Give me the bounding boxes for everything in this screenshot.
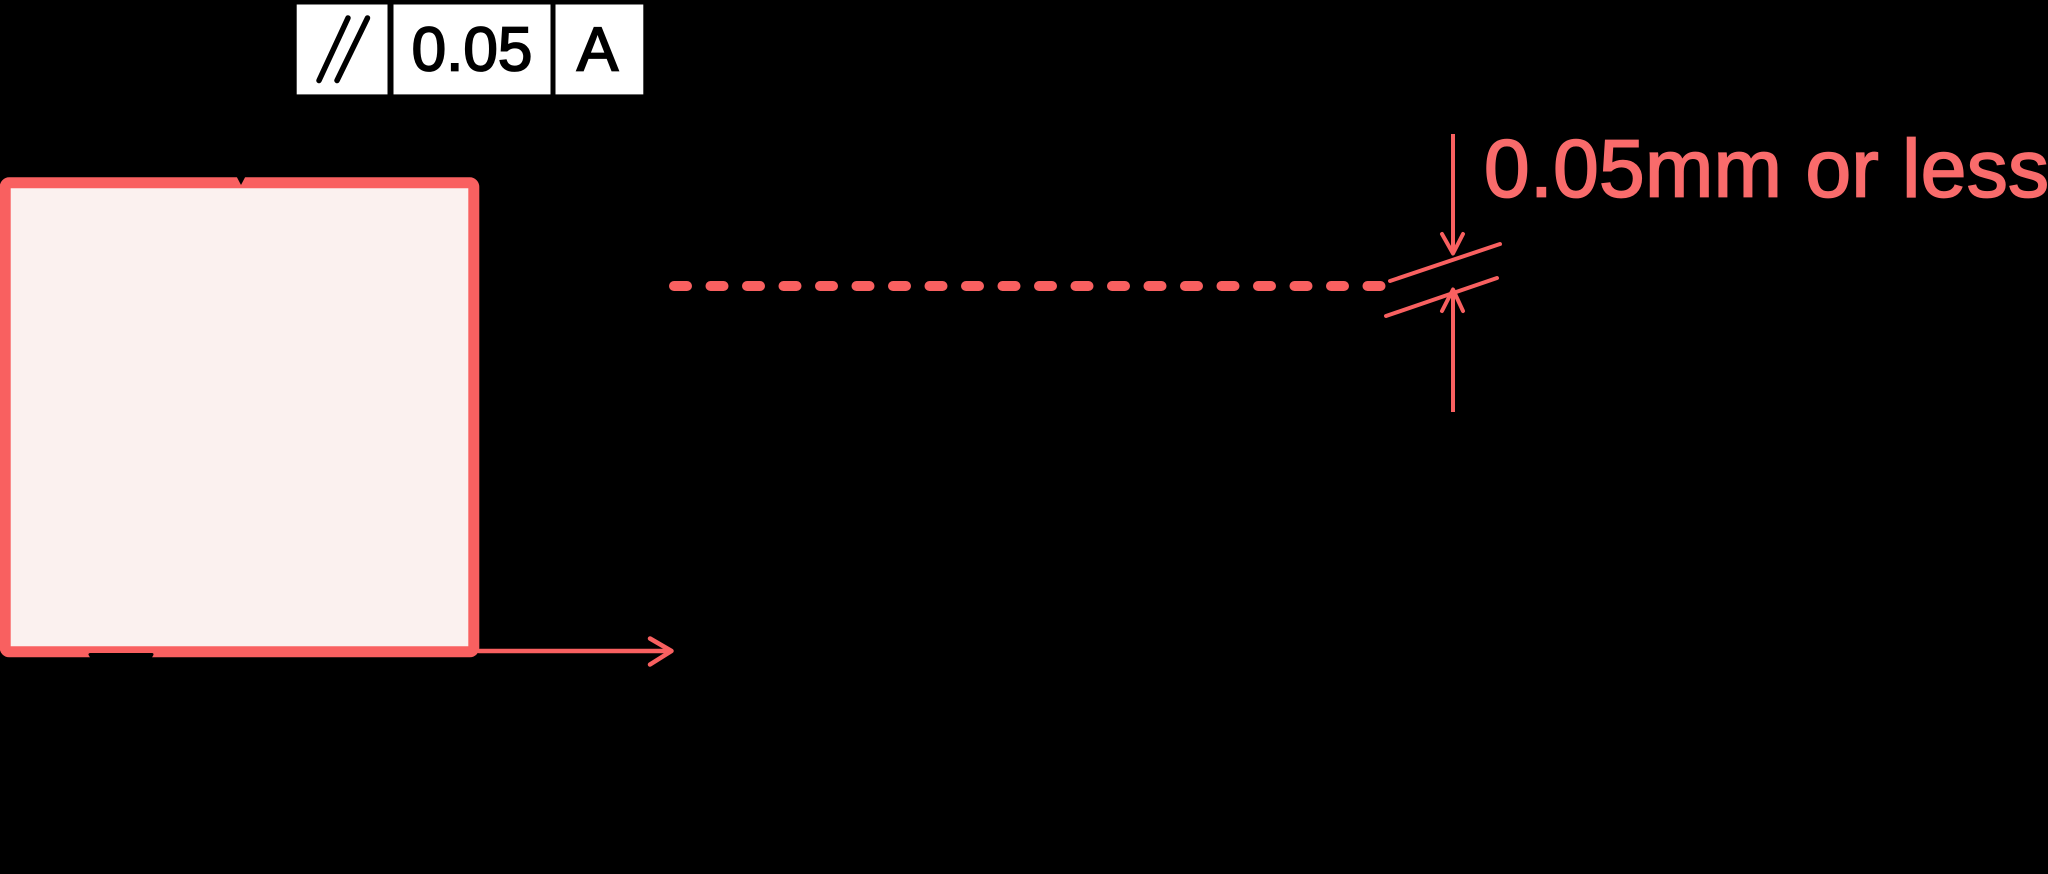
feature control frame cell 2 (tolerance cell) bbox=[394, 5, 551, 95]
datum surface arrow (red, pointing right) bbox=[479, 639, 672, 665]
feature control frame outer border bbox=[291, 0, 654, 104]
feature control frame cell 3 (datum cell) bbox=[556, 5, 644, 95]
svg-text:0.05: 0.05 bbox=[412, 16, 533, 85]
svg-text:A: A bbox=[577, 16, 619, 85]
tolerance zone upper boundary tick bbox=[1390, 244, 1500, 281]
leader arrowhead on top surface (black V notch) bbox=[231, 166, 251, 185]
feature control frame cell 1 (symbol cell) bbox=[297, 5, 388, 95]
datum plane dashed line bbox=[674, 281, 1391, 291]
parallelism symbol // bbox=[319, 18, 368, 81]
tolerance zone lower boundary tick bbox=[1386, 278, 1497, 316]
part outline (toleranced feature square) bbox=[5, 183, 474, 652]
leader line from frame to toleranced surface (black, hidden on bg) bbox=[239, 104, 243, 170]
dimension line lower segment with up arrow bbox=[1442, 290, 1463, 413]
datum triangle on bottom surface (black) bbox=[90, 655, 152, 707]
dimension line upper segment with down arrow bbox=[1442, 134, 1463, 254]
svg-text:0.05mm or less: 0.05mm or less bbox=[1484, 124, 2048, 215]
datum stem (black, hidden) bbox=[119, 700, 123, 780]
